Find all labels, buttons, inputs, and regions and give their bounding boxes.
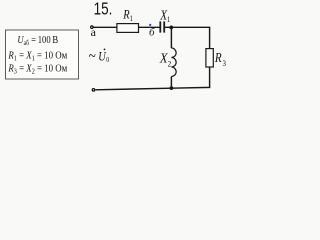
- value label Uab = 100 V: [17, 34, 58, 47]
- wire: R3 bottom, bottom wire back to terminal: [95, 67, 209, 90]
- value label R3 = X2 = 10 Om: [8, 63, 68, 76]
- node junction top: [169, 26, 173, 30]
- terminal a: [91, 26, 94, 29]
- label X2: [159, 50, 171, 69]
- svg-text:R3 = X2 = 10 Ом: R3 = X2 = 10 Ом: [8, 63, 68, 76]
- terminal bottom: [92, 89, 95, 92]
- resistor R3: [206, 49, 213, 67]
- label R3: [214, 50, 226, 68]
- capacitor X1: [159, 21, 161, 32]
- wire: junction down to inductor: [170, 27, 172, 48]
- source label ~U0: [89, 48, 96, 66]
- svg-text:R1 = X1 = 10 Ом: R1 = X1 = 10 Ом: [8, 50, 68, 63]
- value label R1 = X1 = 10 Om: [8, 50, 68, 63]
- info box: [6, 30, 79, 79]
- node b (blue dot): [149, 24, 151, 26]
- node junction bottom: [170, 86, 174, 90]
- label X1: [159, 7, 170, 24]
- svg-text:15.: 15.: [94, 0, 113, 19]
- svg-text:Uаб = 100 В: Uаб = 100 В: [17, 34, 58, 47]
- wire: capacitor to top-right corner and down to R3: [164, 27, 209, 48]
- label R1: [122, 8, 133, 24]
- svg-text:а: а: [91, 25, 97, 39]
- svg-text:~: ~: [89, 48, 96, 66]
- wire top: terminal a to capacitor left plate: [94, 26, 160, 28]
- resistor R1: [117, 24, 139, 33]
- problem number 15.: [94, 0, 113, 19]
- wire: inductor to bottom junction: [170, 77, 172, 89]
- svg-text:б: б: [149, 27, 155, 39]
- inductor X2: [171, 48, 176, 77]
